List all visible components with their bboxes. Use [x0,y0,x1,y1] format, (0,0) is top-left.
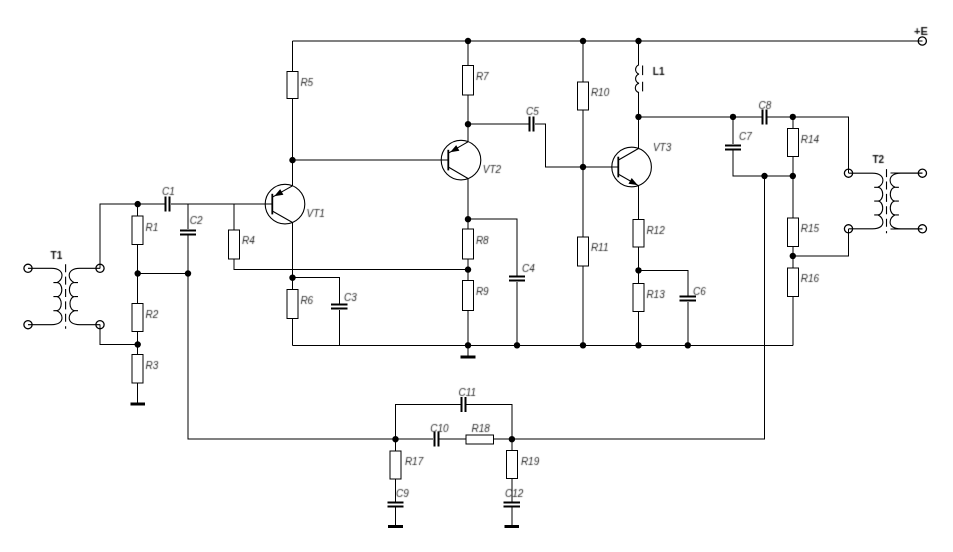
node R10-R11-VT3 base junction [580,164,586,170]
transistor VT1 [265,184,305,224]
resistor R12 [633,219,644,247]
node VT2-C4 junction [465,216,471,222]
resistor R15 [787,218,798,246]
wire R19 C12 column [511,439,513,526]
wire C2 branch [187,204,189,273]
capacitor C7 [725,146,741,150]
resistor R3 [132,355,143,383]
transformer T1 [28,264,100,329]
resistor R7 [463,65,474,95]
resistor R10 [578,82,589,110]
resistor R11 [578,237,589,266]
node rail-R7 junction [465,38,471,44]
node R7-VT2-C5 junction [465,121,471,127]
resistor R19 [506,450,517,478]
capacitor C3 [331,305,347,309]
node R17-C10-C11 junction [392,436,398,442]
node R8-R9-R4 junction [465,266,471,272]
capacitor C8 [763,110,767,125]
wire VT3 emitter to R12 [638,186,640,346]
wire bottom common rail [293,344,793,346]
ground below rail at VT2 column [461,356,476,359]
node VT1 collector junction [289,275,295,281]
wire VT3 collector node to C8 [639,116,762,118]
ground below C12 [505,525,520,528]
node C2 bottom junction [185,270,191,276]
terminal T2 output top [918,169,926,177]
resistor R9 [463,281,474,311]
wire R4 branch from VT1 base [234,204,468,270]
capacitor C4 [509,277,525,281]
terminal T2 output bottom [918,225,926,233]
wire T1 secondary top to node A [100,204,138,268]
node rail-R10 junction [580,38,586,44]
terminal T2 primary top [844,169,852,177]
node R5-VT1 junction [289,157,295,163]
wire VT2 emitter down [467,179,469,220]
wire T2 primary bottom to R15-R16 node [793,229,849,256]
node R14-R15 junction [790,173,796,179]
node C7-C8 junction [730,114,736,120]
wire R10 R11 column [582,41,584,345]
capacitor C6 [680,297,696,301]
resistor R14 [787,129,798,157]
capacitor C5 [530,117,534,132]
resistor R4 [229,230,240,259]
capacitor C11 [462,397,466,412]
resistor R1 [132,216,143,244]
ground below R3 [130,403,145,406]
resistor R18 [466,435,494,444]
wire C1 right plate to VT1 base [171,203,272,205]
wire top supply rail [293,40,923,42]
node R15-R16-T2 junction [790,253,796,259]
node R1-R2-C2 junction left [135,270,141,276]
node rail-C6 junction [685,342,691,348]
resistor R5 [287,71,298,98]
wire R6 column [292,278,294,346]
wire VT2 top node to C5 [468,123,529,125]
wire C11 bridge [396,404,512,439]
transformer T2 [849,169,923,233]
capacitor C10 [435,432,439,447]
terminal T1 secondary top [96,264,104,272]
node R2-R3-T1 junction [135,341,141,347]
resistor R2 [132,303,143,331]
wire ground stub below rail [467,345,469,356]
wire T1 secondary bottom to R2-R3 node [100,325,138,345]
node C8-R14 junction [790,114,796,120]
resistor R8 [463,229,474,259]
terminal T1 secondary bottom [96,321,104,329]
wire L1 column [638,41,640,117]
resistor R13 [633,283,644,311]
wire R17 C9 column [395,439,397,526]
terminal T1 input bottom [24,321,32,329]
capacitor C12 [504,503,520,507]
node R12-R13-C6 junction [635,267,641,273]
wire node A to C1 left plate [138,203,165,205]
node rail-R11 junction [580,342,586,348]
node rail-R13 junction [635,342,641,348]
wire C7 branch [733,117,793,176]
node R18-R19-C11 junction [509,436,515,442]
wire VT3 collector [638,117,640,149]
wire C3 branch [293,278,340,346]
resistor R6 [287,289,298,318]
terminal +E supply [918,37,926,45]
wire R8 R9 column [467,219,469,345]
wire C6 branch [639,270,688,345]
node C7-feedback junction [761,173,767,179]
wire C8 to T2 primary top [767,117,848,173]
resistor R17 [390,451,401,479]
capacitor C2 [180,231,196,235]
wire R7 column [467,41,469,142]
node rail-L1 junction [635,38,641,44]
transistor VT3 [612,147,652,187]
wire bottom network main [396,438,512,440]
wire VT1 emitter node to VT2 base [293,159,449,161]
capacitor C9 [387,503,403,507]
terminal T1 input top [24,264,32,272]
terminal T2 primary bottom [844,225,852,233]
inductor L1 [635,65,642,93]
wire R1 column [137,204,139,403]
ground below C9 [388,525,403,528]
wire C4 branch [468,219,517,345]
wire VT1 collector down [292,223,294,278]
wire C2 node down to feedback line [188,274,396,440]
wire R1 bottom to C2 bottom [138,273,188,275]
node C1-R1 junction [135,201,141,207]
node rail-ground junction [465,342,471,348]
wire R14 R15 R16 column [792,117,794,345]
transistor VT2 [441,140,481,180]
capacitor C1 [166,197,170,212]
wire T2 secondary leads [890,173,922,229]
wire R5 column [292,41,294,186]
resistor R16 [787,268,798,297]
node L1-VT3 collector junction [635,114,641,120]
wire feedback vertical from C7 node [512,176,765,439]
node rail-C4 junction [514,342,520,348]
wire C5 to VT3 base node [535,124,618,167]
